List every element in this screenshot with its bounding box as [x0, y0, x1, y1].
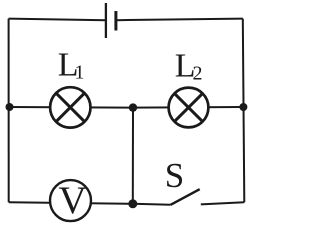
node: left middle junction	[6, 103, 14, 111]
wire left vertical	[8, 19, 10, 203]
wire bottom	[9, 202, 171, 205]
battery cell long plate	[105, 3, 107, 38]
node: bottom middle junction	[128, 199, 137, 208]
svg-text:S: S	[165, 156, 184, 195]
node: center middle junction	[129, 103, 137, 111]
svg-text:2: 2	[193, 63, 203, 85]
wire top-left to battery	[9, 19, 106, 21]
svg-text:V: V	[59, 179, 87, 222]
wire battery to top-right	[116, 19, 243, 21]
wire switch to bottom-right	[201, 202, 245, 204]
lamp L2	[169, 88, 209, 128]
node: right middle junction	[239, 103, 247, 111]
lamp L1	[50, 87, 90, 127]
battery cell short plate	[114, 11, 117, 31]
voltmeter V	[50, 180, 91, 221]
wire middle vertical	[132, 108, 134, 204]
wire middle horizontal	[9, 106, 244, 109]
switch S blade	[171, 189, 200, 205]
wire right vertical	[243, 19, 245, 203]
svg-text:1: 1	[75, 62, 85, 84]
